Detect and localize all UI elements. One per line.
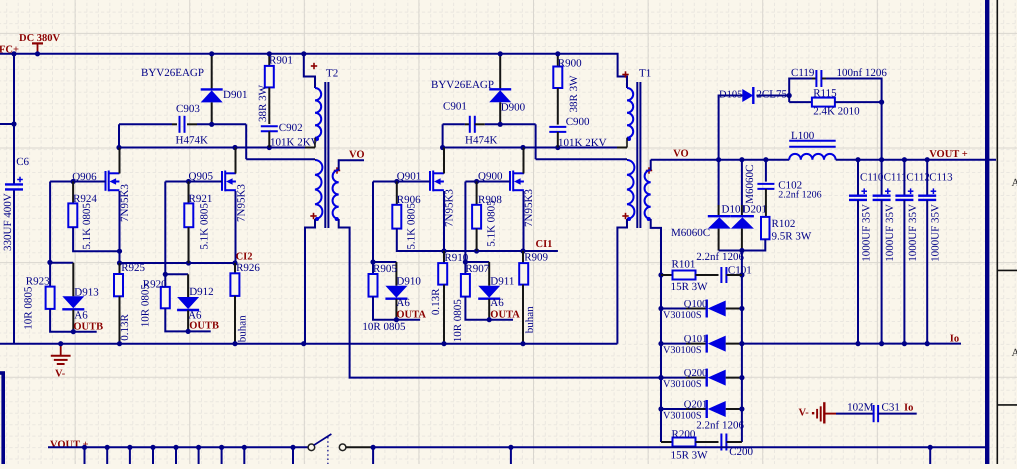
- svg-text:R102: R102: [772, 218, 796, 230]
- svg-text:C6: C6: [16, 156, 29, 168]
- svg-text:VO: VO: [673, 149, 689, 160]
- svg-text:Q901: Q901: [397, 171, 421, 183]
- svg-text:101K 2KV: 101K 2KV: [558, 137, 607, 149]
- svg-text:H474K: H474K: [176, 135, 208, 147]
- svg-text:Q200: Q200: [684, 368, 708, 379]
- svg-text:BYV26EAGP: BYV26EAGP: [431, 79, 494, 91]
- svg-text:10R 0805: 10R 0805: [452, 299, 464, 343]
- svg-text:2CL75: 2CL75: [756, 88, 787, 100]
- svg-text:5.1K 0805: 5.1K 0805: [486, 200, 498, 247]
- svg-text:buhan: buhan: [524, 306, 536, 333]
- svg-text:2.2nf 1206: 2.2nf 1206: [778, 190, 821, 201]
- svg-text:38R 3W: 38R 3W: [257, 84, 269, 122]
- svg-text:T2: T2: [326, 68, 338, 80]
- svg-text:M6060C: M6060C: [744, 165, 756, 204]
- svg-text:Q905: Q905: [189, 171, 214, 183]
- svg-text:D105: D105: [719, 89, 742, 100]
- svg-text:D912: D912: [189, 286, 213, 298]
- svg-text:buhan: buhan: [237, 315, 249, 342]
- svg-text:Q906: Q906: [72, 171, 97, 183]
- svg-text:0.13R: 0.13R: [430, 288, 442, 315]
- svg-text:0.13R: 0.13R: [119, 314, 131, 341]
- svg-text:R923: R923: [26, 276, 50, 288]
- svg-text:C903: C903: [176, 103, 200, 115]
- svg-text:R909: R909: [524, 252, 548, 264]
- svg-text:1000UF 35V: 1000UF 35V: [907, 204, 919, 262]
- svg-text:VOUT +: VOUT +: [929, 149, 968, 160]
- svg-text:15R 3W: 15R 3W: [671, 450, 709, 462]
- svg-text:A6: A6: [396, 297, 410, 309]
- svg-text:R101: R101: [672, 259, 696, 271]
- svg-text:CI2: CI2: [236, 251, 253, 262]
- svg-text:A: A: [1012, 347, 1017, 359]
- svg-text:5.1K 0805: 5.1K 0805: [81, 203, 93, 250]
- svg-text:A6: A6: [188, 309, 202, 321]
- svg-text:R926: R926: [236, 262, 260, 274]
- svg-text:10R 0805: 10R 0805: [140, 284, 152, 328]
- svg-text:D911: D911: [490, 276, 514, 288]
- svg-text:1000UF 35V: 1000UF 35V: [884, 204, 896, 262]
- svg-text:38R 3W: 38R 3W: [568, 75, 580, 113]
- svg-text:C31: C31: [882, 402, 900, 414]
- svg-text:DC 380V: DC 380V: [19, 33, 61, 44]
- svg-text:Q101: Q101: [684, 334, 708, 345]
- svg-text:Q900: Q900: [478, 171, 503, 183]
- svg-text:R900: R900: [558, 58, 582, 70]
- svg-text:OUTB: OUTB: [189, 321, 219, 332]
- svg-text:1000UF 35V: 1000UF 35V: [861, 204, 873, 262]
- svg-text:D910: D910: [396, 276, 421, 288]
- svg-text:9.5R 3W: 9.5R 3W: [772, 231, 812, 243]
- svg-text:330UF 400V: 330UF 400V: [2, 193, 14, 251]
- svg-text:15R 3W: 15R 3W: [671, 281, 709, 293]
- svg-text:D900: D900: [501, 102, 526, 114]
- svg-text:FC+: FC+: [0, 45, 19, 56]
- svg-text:5.1K 0805: 5.1K 0805: [199, 203, 211, 250]
- svg-text:100nf 1206: 100nf 1206: [837, 67, 888, 79]
- svg-text:M6060C: M6060C: [671, 227, 710, 239]
- svg-text:D901: D901: [223, 89, 247, 101]
- svg-text:C119: C119: [791, 67, 815, 79]
- svg-text:7N95K3: 7N95K3: [236, 184, 248, 222]
- svg-text:1000UF 35V: 1000UF 35V: [930, 204, 942, 262]
- svg-text:A: A: [1012, 177, 1017, 189]
- svg-text:7N95K3: 7N95K3: [444, 189, 456, 227]
- svg-text:102M: 102M: [847, 402, 874, 414]
- svg-text:10R 0805: 10R 0805: [362, 321, 406, 333]
- svg-text:Q100: Q100: [684, 299, 708, 310]
- svg-text:Io: Io: [950, 334, 959, 345]
- svg-text:R905: R905: [373, 263, 397, 275]
- svg-text:BYV26EAGP: BYV26EAGP: [141, 67, 204, 79]
- svg-text:V30100S: V30100S: [663, 345, 702, 356]
- svg-text:D913: D913: [74, 286, 99, 298]
- svg-text:VO: VO: [349, 150, 365, 161]
- svg-text:2.2nf 1206: 2.2nf 1206: [696, 420, 744, 432]
- svg-text:2.2nf 1206: 2.2nf 1206: [696, 251, 744, 263]
- svg-text:R901: R901: [269, 55, 293, 67]
- svg-text:OUTA: OUTA: [396, 309, 426, 320]
- svg-text:V30100S: V30100S: [663, 310, 702, 321]
- svg-text:Q201: Q201: [684, 400, 708, 411]
- svg-text:C110: C110: [860, 171, 884, 183]
- svg-text:C901: C901: [443, 101, 467, 113]
- svg-text:V-: V-: [55, 369, 66, 380]
- svg-text:T1: T1: [639, 68, 651, 80]
- svg-text:A6: A6: [490, 297, 504, 309]
- svg-text:V-: V-: [799, 407, 810, 418]
- svg-text:5.1K 0805: 5.1K 0805: [406, 203, 418, 250]
- svg-text:OUTB: OUTB: [73, 322, 103, 333]
- svg-text:C113: C113: [929, 171, 953, 183]
- svg-text:2.4K 2010: 2.4K 2010: [813, 106, 860, 118]
- svg-text:101K 2KV: 101K 2KV: [270, 136, 319, 148]
- svg-text:OUTA: OUTA: [490, 309, 520, 320]
- svg-text:D201: D201: [743, 204, 767, 216]
- svg-text:A6: A6: [74, 309, 88, 321]
- svg-text:C900: C900: [566, 116, 590, 128]
- svg-text:R115: R115: [813, 87, 837, 99]
- svg-text:C101: C101: [728, 265, 752, 277]
- svg-text:C111: C111: [884, 171, 907, 183]
- svg-text:CI1: CI1: [536, 239, 553, 250]
- svg-text:H474K: H474K: [465, 135, 497, 147]
- svg-text:C902: C902: [279, 122, 303, 134]
- svg-text:R907: R907: [465, 263, 489, 275]
- svg-text:7N95K3: 7N95K3: [523, 189, 535, 227]
- svg-text:R200: R200: [672, 429, 696, 441]
- svg-text:R925: R925: [121, 262, 145, 274]
- svg-text:Io: Io: [904, 403, 913, 414]
- svg-text:10R 0805: 10R 0805: [23, 286, 35, 330]
- svg-text:V30100S: V30100S: [663, 379, 702, 390]
- svg-text:7N95K3: 7N95K3: [119, 184, 131, 222]
